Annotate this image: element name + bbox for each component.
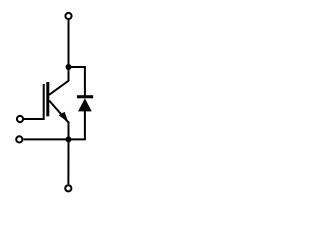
wire emitter rail left bbox=[23, 138, 68, 140]
transistor Q1 emitter arrowhead bbox=[59, 112, 69, 123]
wire collector lead diagonal bbox=[49, 67, 68, 95]
transistor Q1 body bar bbox=[46, 82, 49, 116]
diode D1 anode triangle bbox=[78, 98, 92, 111]
terminal E (emitter, bottom) bbox=[65, 185, 71, 191]
wire diode branch top bbox=[69, 67, 85, 97]
wire collector vertical bbox=[68, 20, 70, 68]
diode D1 cathode bar bbox=[77, 95, 93, 98]
wire diode bottom bbox=[69, 110, 85, 139]
terminal E aux (left lower) bbox=[16, 136, 22, 142]
terminal G (gate, left) bbox=[17, 116, 23, 122]
node junction bottom bbox=[66, 136, 72, 142]
wire emitter vertical bottom bbox=[67, 139, 69, 184]
node junction top bbox=[66, 64, 72, 70]
terminal C (collector, top) bbox=[65, 13, 71, 19]
wire emitter down bbox=[68, 122, 70, 140]
transistor Q1 emitter diagonal bbox=[49, 101, 68, 123]
transistor Q1 gate bar and gate lead bbox=[24, 84, 44, 119]
